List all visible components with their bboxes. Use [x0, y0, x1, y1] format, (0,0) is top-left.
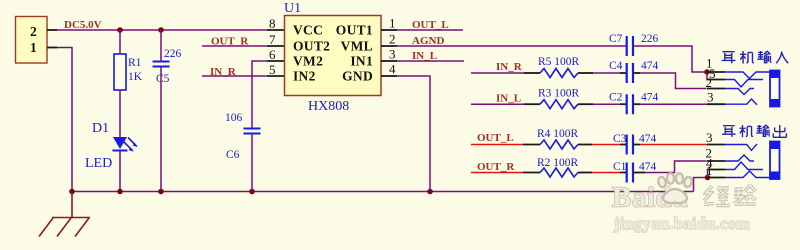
svg-text:226: 226: [164, 48, 182, 60]
svg-text:IN_L: IN_L: [412, 50, 437, 62]
svg-text:DC5.0V: DC5.0V: [64, 19, 102, 31]
pin 5 stub: [267, 75, 284, 77]
C2 pin right: [633, 103, 640, 105]
capacitor C1: [627, 163, 633, 183]
svg-text:C7: C7: [609, 33, 623, 45]
svg-text:5: 5: [269, 62, 276, 77]
svg-text:U1: U1: [284, 1, 301, 16]
输: [756, 125, 770, 136]
ground symbol: [39, 192, 90, 237]
svg-text:4: 4: [389, 62, 396, 77]
node junction at input jack pin1: [704, 69, 710, 75]
node junction rail/LED: [117, 189, 123, 195]
wire VM2 (pin6) to C6: [252, 61, 267, 129]
svg-text:OUT2: OUT2: [293, 39, 330, 54]
resistor R5: [540, 69, 578, 78]
输: [757, 51, 771, 63]
svg-text:AGND: AGND: [412, 35, 444, 47]
svg-text:OUT_R: OUT_R: [477, 161, 515, 173]
capacitor C7: [627, 36, 633, 56]
svg-text:474: 474: [639, 161, 657, 173]
svg-text:HX808: HX808: [308, 99, 349, 114]
wire R2 to C1 (red): [592, 172, 620, 174]
C4 pin left: [620, 72, 626, 74]
input jack pin line 3: [707, 103, 725, 105]
svg-text:R1: R1: [128, 57, 142, 69]
svg-text:IN_R: IN_R: [496, 61, 523, 73]
watermark Baidu logo text: [612, 182, 750, 234]
input jack pin line 1: [707, 71, 725, 73]
经 outline: [704, 186, 730, 206]
pin 1 stub (right): [381, 29, 397, 31]
node junction rail/C6: [249, 189, 255, 195]
capacitor C5: [153, 62, 170, 67]
wire DC5.0V from connector to R1/C5/pin8: [57, 29, 267, 31]
wire stub jack pin1 to line4: [707, 170, 709, 178]
output jack contacts: [725, 144, 770, 178]
R4 pin left: [523, 144, 540, 146]
R3 pin left: [524, 103, 540, 105]
wire R1 top: [119, 30, 121, 54]
capacitor C6: [244, 129, 261, 134]
svg-text:C5: C5: [156, 73, 170, 85]
svg-text:2: 2: [30, 24, 37, 39]
svg-text:R2 100R: R2 100R: [537, 157, 579, 169]
svg-text:3: 3: [389, 47, 396, 62]
resistor R4: [540, 140, 578, 149]
wire C3 to output jack pin3 (red): [640, 144, 708, 146]
connector pin 2 stub: [47, 29, 57, 31]
node junction rail/pin4: [427, 189, 433, 195]
机: [740, 51, 754, 64]
ground rail: [72, 191, 694, 193]
wire OUT_R to R2 (red): [471, 172, 523, 174]
output jack label 耳机输出: [722, 125, 786, 137]
pin 3 stub (right): [381, 60, 397, 62]
svg-text:C2: C2: [609, 92, 623, 104]
C3 pin right: [633, 144, 640, 146]
svg-text:6: 6: [269, 47, 276, 62]
svg-text:106: 106: [225, 112, 243, 124]
svg-text:1: 1: [389, 16, 396, 31]
出: [773, 125, 786, 137]
耳: [722, 126, 736, 137]
output jack pin line 2: [707, 160, 726, 162]
svg-text:GND: GND: [342, 69, 373, 84]
svg-text:D1: D1: [92, 121, 109, 136]
wire IN_R stub to pin5: [202, 75, 267, 77]
svg-text:OUT1: OUT1: [336, 23, 373, 38]
svg-text:7: 7: [269, 32, 276, 47]
svg-text:IN_L: IN_L: [496, 93, 521, 105]
input jack pin line 5: [707, 79, 725, 81]
watermark 经验 characters: [704, 185, 756, 206]
input jack contacts: [725, 72, 770, 105]
pin 2 stub (right): [381, 45, 397, 47]
wire from connector pin 1 down to ground rail: [57, 48, 72, 192]
svg-text:226: 226: [641, 33, 659, 45]
R2 pin right: [578, 172, 592, 174]
svg-text:LED: LED: [85, 156, 112, 171]
svg-text:3: 3: [706, 130, 713, 145]
svg-text:VCC: VCC: [293, 23, 323, 38]
wire C2 to input jack pin3: [640, 103, 708, 105]
svg-text:IN1: IN1: [350, 54, 373, 69]
wire OUT_L from pin1: [397, 29, 463, 31]
capacitor C3: [627, 135, 633, 155]
LED D1: [113, 137, 138, 152]
wire C1 to output jack pin2: [645, 161, 706, 173]
svg-text:OUT_L: OUT_L: [412, 19, 449, 31]
C2 pin left: [620, 103, 626, 105]
resistor R3: [540, 100, 578, 109]
wire IN_L to R3: [471, 103, 524, 105]
R2 pin left: [523, 172, 540, 174]
验 outline: [734, 185, 756, 204]
C1 pin right: [633, 172, 645, 174]
wire R4 to C3 (red): [592, 144, 620, 146]
resistor R2: [540, 168, 578, 177]
pin 8 stub of U1: [267, 29, 284, 31]
R5 pin left: [524, 72, 540, 74]
op-amp U1 body: [285, 16, 382, 96]
output jack body: [770, 142, 780, 180]
C4 pin right: [633, 72, 640, 74]
node junction rail/C5: [158, 189, 164, 195]
svg-text:IN2: IN2: [293, 69, 316, 84]
svg-text:C6: C6: [226, 149, 240, 161]
C1 pin left: [620, 172, 626, 174]
svg-text:474: 474: [641, 60, 659, 72]
svg-text:C1: C1: [613, 161, 627, 173]
output jack pin line 3: [707, 144, 725, 146]
input jack body: [770, 71, 780, 107]
wire stub jack pin1 to pin5 line: [706, 72, 708, 80]
耳: [722, 52, 736, 64]
wire IN_R to R5: [471, 72, 524, 74]
R5 pin right: [578, 72, 593, 74]
svg-text:1: 1: [706, 163, 713, 178]
svg-text:1K: 1K: [128, 71, 143, 83]
svg-text:VML: VML: [341, 39, 373, 54]
pin 7 stub: [267, 45, 284, 47]
R3 pin right: [578, 103, 593, 105]
wire OUT_L to R4 (red): [471, 144, 523, 146]
output jack pin line 4: [707, 169, 725, 171]
R4 pin right: [578, 144, 592, 146]
wire AGND from pin2 to C7: [397, 45, 626, 47]
C3 pin left: [620, 144, 626, 146]
wire C5 bottom to ground rail: [160, 67, 162, 192]
connector P1: [16, 17, 48, 64]
svg-text:OUT_L: OUT_L: [477, 132, 514, 144]
wire C4 to input jack pin2: [640, 73, 706, 89]
connector pin 1 stub: [47, 47, 57, 49]
wire R3 to C2: [593, 103, 620, 105]
svg-text:8: 8: [269, 16, 276, 31]
svg-text:C3: C3: [613, 133, 627, 145]
svg-text:VM2: VM2: [293, 54, 323, 69]
svg-text:2: 2: [389, 32, 396, 47]
wire C7 to input jack pin1: [633, 46, 705, 72]
svg-text:jingyan.baidu.com: jingyan.baidu.com: [613, 214, 750, 233]
output jack pin line 1: [707, 177, 725, 179]
机: [740, 125, 754, 137]
input jack label 耳机输入: [722, 51, 789, 64]
经 core: [704, 186, 730, 206]
resistor R1: [114, 54, 126, 90]
svg-text:R5 100R: R5 100R: [538, 56, 580, 68]
node junction at output jack pin1: [705, 175, 711, 181]
验 core: [734, 185, 756, 204]
svg-text:C4: C4: [609, 60, 623, 72]
svg-text:474: 474: [641, 92, 659, 104]
wire ground rail to output jack pin1: [694, 178, 708, 192]
node junction rail/conn: [69, 189, 75, 195]
capacitor C2: [627, 94, 633, 114]
wire pin4 to ground rail: [397, 76, 430, 192]
node junction DC5.0V / R1: [117, 27, 123, 33]
svg-text:474: 474: [639, 133, 657, 145]
pin 4 stub (right): [381, 75, 397, 77]
wire C6 bottom to rail: [251, 134, 253, 192]
wire C5 top: [160, 30, 162, 62]
svg-text:3: 3: [707, 90, 714, 105]
input jack pin line 2: [707, 88, 726, 90]
svg-text:1: 1: [30, 40, 37, 55]
wire R5 to C4: [593, 72, 620, 74]
pin 6 stub: [267, 60, 284, 62]
wire LED to ground rail: [119, 151, 121, 192]
svg-text:R3 100R: R3 100R: [538, 88, 580, 100]
入: [776, 51, 788, 63]
svg-text:R4 100R: R4 100R: [537, 128, 579, 140]
wire R1 bottom to LED: [119, 90, 121, 137]
watermark paw icon: [657, 173, 693, 203]
node junction DC5.0V / C5: [158, 27, 164, 33]
capacitor C4: [627, 63, 633, 83]
wire IN_L from pin3: [397, 60, 464, 62]
wire OUT_R stub to pin7: [202, 45, 267, 47]
